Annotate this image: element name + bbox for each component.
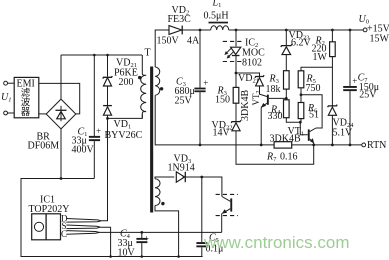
inductor L1 [211, 26, 229, 30]
opto phototransistor emitter [223, 209, 231, 214]
wire VD22 down across RTN to bypass [236, 131, 314, 164]
resistor R5 750 [298, 71, 304, 88]
junction rail R2 [331, 29, 334, 32]
wire VT2 emitter down to RTN [260, 107, 262, 145]
svg-text:+: + [203, 78, 208, 88]
junction C7 RTN [349, 144, 352, 147]
VT1 collector [310, 128, 316, 132]
wire input top to EMI [8, 82, 15, 84]
wire VD23 top [285, 30, 287, 46]
wire VD21 to VT2 collector [260, 86, 268, 97]
svg-text:150: 150 [215, 95, 230, 106]
svg-text:25V: 25V [359, 89, 377, 100]
junction rail opto [235, 29, 238, 32]
wire bias winding return [155, 206, 179, 257]
wire C5 bottom [201, 247, 203, 256]
secondary phase dot [160, 87, 163, 90]
wire VD23 to R3a [285, 55, 287, 71]
svg-text:EMI: EMI [17, 79, 35, 90]
IC1 package divider [45, 214, 47, 240]
junction VD24 RTN [331, 144, 334, 147]
IC1 pin C lead [66, 231, 99, 235]
junction rail C7 [349, 29, 352, 32]
EMI filter box [14, 77, 39, 117]
opto transistor dashed box [216, 194, 238, 215]
inductor L1 core bar [209, 22, 229, 24]
capacitor C3 plates [194, 88, 205, 90]
svg-text:+: + [96, 126, 101, 136]
wire C1 bottom [93, 141, 95, 178]
svg-text:T: T [145, 48, 151, 59]
zener VD22 14V [231, 120, 241, 123]
wire R6 bottom to VT1 base [300, 119, 308, 135]
wire rail to R2 [331, 30, 333, 42]
wire VD1 to drain node and D pin [101, 115, 107, 221]
junction VD3 node [200, 176, 203, 179]
VT2 emitter with arrow [261, 103, 267, 107]
junction C4 bottom rail [141, 255, 144, 258]
wire input bottom to EMI [8, 112, 15, 114]
transistor VT2 base bar [267, 95, 269, 105]
wire node to VT1 collector riser [301, 95, 322, 128]
wire opto emitter to control line [221, 213, 223, 232]
svg-text:0.16: 0.16 [280, 152, 298, 163]
svg-text:14V: 14V [213, 128, 231, 139]
svg-text:200: 200 [119, 77, 134, 88]
junction VT1 emitter RTN [312, 144, 315, 147]
wire 18k to junction [285, 89, 287, 100]
wire C3 bottom [199, 92, 201, 145]
transformer primary winding [141, 55, 147, 118]
bridge internal diode [56, 109, 67, 111]
resistor R4 330 [284, 100, 290, 118]
wire S pin down to bus [101, 227, 111, 256]
transformer secondary winding [155, 67, 160, 95]
wire VD24 bottom to RTN [331, 115, 333, 145]
capacitor C4 plates [136, 238, 147, 240]
wire between VD21 and VD1 [107, 86, 109, 106]
IC1 TOP202Y package body [32, 214, 61, 240]
svg-text:1W: 1W [313, 52, 328, 63]
wire primary winding bottom to drain node [108, 114, 143, 118]
junction C3 RTN [199, 144, 202, 147]
IC1 pin S lead [66, 225, 100, 229]
wire C5 from node [201, 177, 203, 242]
zener VD21 P6KE200 [103, 76, 113, 79]
wire C4 top [141, 232, 143, 238]
svg-text:10V: 10V [118, 248, 136, 259]
transformer bias winding [155, 179, 160, 206]
wire VD3 to node [183, 177, 222, 197]
zener VD21 (feedback) [255, 75, 264, 78]
diode VD1 BYV26C [103, 105, 112, 107]
wire bridge top to primary rail [60, 55, 62, 99]
junction C4 control line [140, 231, 143, 234]
capacitor C7 plates [343, 86, 357, 88]
resistor R3 150 [233, 87, 239, 103]
junction R5 R6 node [300, 93, 303, 96]
svg-text:0.5μH: 0.5μH [204, 11, 229, 22]
wire C pin control line [99, 231, 221, 233]
opto LED dashed box [223, 41, 243, 61]
svg-text:15W: 15W [370, 34, 389, 45]
svg-text:C: C [61, 229, 67, 239]
RTN rail right segment [292, 144, 362, 146]
RTN rail left segment [155, 95, 274, 145]
opto phototransistor base bar [230, 198, 232, 211]
svg-text:750: 750 [306, 83, 321, 94]
wire C3 top [199, 30, 201, 88]
RTN terminal [362, 143, 366, 147]
wire opto LED top [235, 30, 237, 46]
svg-text:BYV26C: BYV26C [105, 130, 143, 141]
transistor VT1 base bar [308, 129, 310, 140]
output rail right of L1 [229, 29, 364, 31]
svg-text:6.2V: 6.2V [291, 38, 312, 49]
junction C1 top rail [93, 54, 96, 57]
svg-text:www.cntronics.com: www.cntronics.com [203, 233, 349, 252]
wire R2 bottom branch to R5 [301, 57, 332, 108]
opto phototransistor collector wire [222, 197, 230, 202]
svg-text:4A: 4A [187, 36, 200, 47]
svg-text:51: 51 [309, 110, 319, 121]
resistor R2 220 1W [330, 42, 336, 57]
junction R4/R6 [299, 121, 302, 124]
wire R4 bottom to VT1 base junction [286, 118, 300, 123]
wire EMI top to bridge AC right [39, 83, 80, 114]
svg-text:5.1V: 5.1V [333, 128, 354, 139]
svg-text:150V: 150V [157, 36, 180, 47]
wire C1 top [93, 55, 95, 136]
resistor R6 51 [298, 103, 304, 119]
wire bias winding top to VD3 [155, 177, 174, 179]
bias winding phase dot [161, 202, 164, 205]
svg-text:+: + [352, 76, 357, 86]
junction bias return bottom rail [177, 255, 180, 258]
svg-text:1N914: 1N914 [168, 163, 195, 174]
zener VD24 5.1V [328, 105, 338, 108]
svg-text:FE3C: FE3C [168, 14, 192, 25]
svg-text:DF06M: DF06M [28, 140, 60, 151]
junction drain node [106, 117, 109, 120]
svg-text:器: 器 [21, 107, 31, 118]
input terminal top [4, 81, 8, 85]
wire node B to VD21 [236, 73, 260, 77]
diode VD3 1N914 [176, 172, 184, 182]
wire C4 bottom [141, 243, 143, 256]
opto LED light arrows [227, 48, 234, 56]
svg-text:+: + [144, 234, 149, 244]
VT1 emitter with arrow [310, 139, 314, 143]
output rail left of L1 [181, 29, 210, 31]
junction rail C3 [199, 29, 202, 32]
wire C7 bottom [349, 91, 351, 145]
wire TVS chain top [107, 55, 109, 76]
capacitor C1 plates [89, 136, 100, 138]
svg-text:400V: 400V [72, 145, 95, 156]
input terminal bottom [4, 111, 8, 115]
VT2 base wire to R3/R4 junction [269, 97, 287, 99]
junction rail VD23 [285, 29, 288, 32]
wire R3 to VD22 [235, 103, 237, 121]
svg-text:330: 330 [268, 111, 283, 122]
wire EMI bottom to bridge AC left [39, 113, 46, 115]
diode VD2 FE3C [169, 26, 182, 35]
wire R5 to R6 node [300, 88, 302, 103]
wire LED cathode down to R3 [235, 56, 237, 88]
svg-text:3DK4B: 3DK4B [270, 134, 301, 145]
IC1 mounting hole [34, 222, 43, 231]
svg-text:L1: L1 [212, 0, 222, 9]
svg-text:RTN: RTN [367, 140, 386, 151]
svg-text:滤: 滤 [21, 87, 31, 99]
bridge rectifier BR diamond [46, 99, 76, 129]
junction VT2 emitter RTN [260, 144, 263, 147]
svg-text:18k: 18k [266, 84, 281, 95]
junction TVS chain top rail [106, 54, 109, 57]
svg-text:波: 波 [21, 97, 31, 109]
junction node B [235, 72, 238, 75]
wire bridge bottom down [60, 129, 62, 179]
resistor R3a 18k [284, 71, 290, 89]
IC1 pin D lead [66, 219, 101, 223]
junction bridge bottom bus [60, 177, 63, 180]
junction S wire bottom rail [109, 255, 112, 258]
capacitor C5 plates [196, 242, 207, 244]
svg-text:8102: 8102 [242, 58, 262, 69]
wire C7 top [349, 30, 351, 86]
svg-text:3DK4B: 3DK4B [240, 90, 251, 121]
output terminal +15V [363, 28, 367, 32]
svg-text:25V: 25V [175, 96, 193, 107]
wire bottom-left bus [21, 179, 203, 257]
primary phase dot [138, 76, 141, 79]
primary top rail [61, 54, 142, 56]
zener VD23 6.2V [281, 44, 292, 47]
transformer T core [150, 67, 153, 213]
opto LED of IC2 [231, 47, 241, 54]
wire secondary top [155, 30, 169, 67]
resistor R7 0.16 [274, 142, 292, 148]
